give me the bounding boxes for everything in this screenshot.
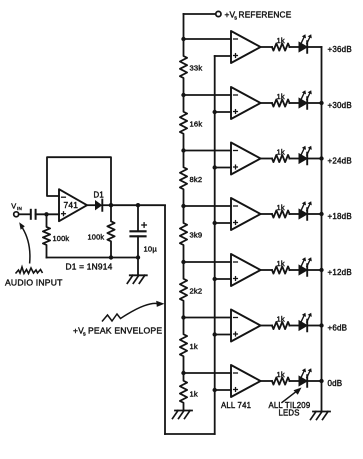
op-amp 741 comparator 2 [231,87,261,119]
ground LED rail [311,412,331,420]
svg-text:1k: 1k [277,147,285,156]
svg-text:741: 741 [64,200,79,210]
wire minus input row 4 [184,205,232,207]
svg-text:1k: 1k [277,203,285,212]
label +Vs REFERENCE [225,10,292,22]
arrow audio input [19,222,30,263]
label 3k9 [190,231,203,240]
wire Vin to capacitor [19,213,31,215]
junction bus row 2 [213,110,217,114]
svg-text:+12dB: +12dB [328,268,352,277]
wire LED to rail row 5 [309,269,322,271]
junction rail row 2 [319,101,323,105]
wire top reference rail [184,13,216,15]
op-amp 741 comparator 5 [231,254,261,286]
wire minus input row 2 [184,94,232,96]
wire output row 3 [261,158,273,160]
wire to ground peak detector [137,258,139,276]
wire to LED row 3 [290,158,300,160]
wire plus input row 6 [215,334,231,336]
junction rail row 6 [319,323,323,327]
wire plus input row 3 [215,167,231,169]
junction rail row 4 [319,212,323,216]
junction 100k bottom [109,255,113,259]
wire LED to rail row 6 [309,325,322,327]
label 1k row 2 [277,92,285,101]
LED TIL209 row 4 [299,201,312,220]
wire output row 5 [261,269,273,271]
capacitor input coupling [31,210,36,219]
svg-text:V: V [11,202,16,211]
label 1k row 3 [277,147,285,156]
label 10u [144,245,158,254]
wire to LED row 7 [290,380,300,382]
label 1k row 7 [277,370,285,379]
label 16k [190,119,203,128]
junction rail row 7 [319,379,323,383]
junction bus row 6 [213,332,217,336]
junction ladder node 1 [181,37,185,41]
junction ladder node 4 [181,204,185,208]
wire LED to rail row 3 [309,158,322,160]
wire peak detector bottom rail [47,257,139,259]
label AUDIO INPUT [5,278,63,288]
terminal +Vs reference (open circle) [216,11,221,16]
wire signal bus vertical [214,56,216,434]
resistor 1k row 4 [272,210,290,217]
wire plus input row 2 [215,111,231,113]
svg-text:100k: 100k [53,234,70,243]
label ALL TIL209 [269,401,311,410]
label D1 [94,191,104,200]
wire minus input row 3 [184,150,232,152]
svg-text:REFERENCE: REFERENCE [239,10,292,20]
wire to LED row 1 [290,46,300,48]
resistor 1k row 7 [272,377,290,384]
wire minus input row 6 [184,317,232,319]
junction bus row 7 [213,388,217,392]
wire output row 1 [261,46,273,48]
svg-text:1k: 1k [277,370,285,379]
LED TIL209 row 6 [299,313,312,332]
op-amp 741 comparator 6 [231,310,261,342]
diode D1 1N914 [87,200,111,211]
capacitor 10u electrolytic [131,205,147,257]
svg-text:PEAK ENVELOPE: PEAK ENVELOPE [88,326,162,336]
wire capacitor to plus input [36,213,59,215]
junction bus row 4 [213,221,217,225]
label +12dB [328,268,352,277]
ground ladder bottom [173,411,193,419]
junction ladder node 5 [181,260,185,264]
label ALL 741 [221,401,251,410]
svg-text:0dB: 0dB [328,379,343,388]
junction ladder node 3 [181,148,185,152]
LED TIL209 row 3 [299,146,312,165]
svg-text:D1: D1 [94,191,104,200]
junction ladder node 2 [181,93,185,97]
label +24dB [328,157,352,166]
junction ladder node 6 [181,315,185,319]
junction ladder node 7 [181,371,185,375]
svg-text:33k: 33k [190,64,203,73]
wire to LED row 4 [290,213,300,215]
wire peak envelope vertical [164,206,166,435]
svg-text:LEDS: LEDS [279,409,300,418]
wire minus input row 1 [184,38,232,40]
LED TIL209 row 7 [299,368,312,387]
wire feedback [47,157,111,205]
label +Vs PEAK ENVELOPE [73,326,162,338]
label 1k row 1 [277,36,285,45]
wire LED rail vertical [321,47,323,412]
terminal Vin (open circle) [14,212,19,217]
wire minus input row 7 [184,372,232,374]
svg-text:1k: 1k [277,92,285,101]
junction capacitor top [136,203,140,207]
wire plus input row 1 [215,55,231,57]
svg-text:AUDIO INPUT: AUDIO INPUT [5,278,63,288]
scribble audio waveform [16,267,43,274]
label 1k row 6 [277,314,285,323]
resistor 1k row 3 [272,155,290,162]
svg-text:+24dB: +24dB [328,157,352,166]
resistor 1k row 2 [272,99,290,106]
wire to LED row 6 [290,325,300,327]
svg-text:1k: 1k [277,314,285,323]
wire signal bus bottom horizontal [165,433,215,435]
svg-text:2k2: 2k2 [190,286,203,295]
LED TIL209 row 1 [299,34,312,53]
svg-text:+30dB: +30dB [328,101,352,110]
label +30dB [328,101,352,110]
junction rail row 5 [319,268,323,272]
label +18dB [328,212,352,221]
wire LED to rail row 4 [309,213,322,215]
op-amp 741 comparator 1 [231,31,261,63]
junction 100k top [44,212,48,216]
svg-text:10µ: 10µ [144,245,158,254]
wire to LED row 2 [290,102,300,104]
wire plus input row 4 [215,222,231,224]
svg-text:100k: 100k [88,233,105,242]
wire output row 6 [261,325,273,327]
svg-text:1k: 1k [277,36,285,45]
junction rail row 3 [319,156,323,160]
wire LED to rail row 1 [309,46,322,48]
wire output row 2 [261,102,273,104]
svg-text:3k9: 3k9 [190,231,203,240]
label 1k row 5 [277,259,285,268]
wire ladder rail top segment [183,14,185,39]
svg-text:s: s [83,331,86,337]
junction bus row 5 [213,277,217,281]
label 1k row 4 [277,203,285,212]
label Vin [11,202,22,212]
label 1k bottom [190,390,198,399]
junction bus row 3 [213,165,217,169]
label 33k [190,64,203,73]
label 1k [190,342,198,351]
junction diode output node [109,203,113,207]
op-amp 741 peak detector [59,189,87,221]
wire LED to rail row 2 [309,102,322,104]
wire output node to envelope [111,204,165,206]
svg-text:1k: 1k [190,342,198,351]
svg-text:8k2: 8k2 [190,175,203,184]
resistor 3k9 ladder [180,206,187,262]
svg-text:1k: 1k [190,390,198,399]
resistor 1k row 6 [272,322,290,329]
resistor 16k ladder [180,95,187,151]
op-amp 741 comparator 7 [231,365,261,397]
label +36dB [328,45,352,54]
junction capacitor bottom [136,255,140,259]
wire minus input row 5 [184,261,232,263]
wire plus input row 7 [215,389,231,391]
arrow to LEDs [282,388,302,403]
svg-text:+18dB: +18dB [328,212,352,221]
resistor 1k row 5 [272,266,290,273]
resistor 100k input [43,214,50,257]
wire output row 7 [261,380,273,382]
svg-text:ALL 741: ALL 741 [221,401,251,410]
arrow peak envelope [102,301,165,322]
wire plus input row 5 [215,278,231,280]
wire LED to rail row 7 [309,380,322,382]
resistor 1k row 1 [272,43,290,50]
LED TIL209 row 5 [299,257,312,276]
op-amp 741 comparator 4 [231,198,261,230]
label 2k2 [190,286,203,295]
resistor 100k output [107,205,114,257]
label LEDS [279,409,300,418]
op-amp 741 comparator 3 [231,143,261,175]
svg-text:16k: 16k [190,119,203,128]
ground peak detector [127,275,147,283]
label 0dB [328,379,343,388]
resistor 33k ladder [180,39,187,95]
label 100k output [88,233,105,242]
svg-text:+6dB: +6dB [328,324,348,333]
LED TIL209 row 2 [299,90,312,109]
resistor 1k ladder [180,318,187,374]
svg-text:IN: IN [17,206,22,211]
label +6dB [328,324,348,333]
svg-text:+36dB: +36dB [328,45,352,54]
svg-text:D1 = 1N914: D1 = 1N914 [66,262,113,272]
svg-text:1k: 1k [277,259,285,268]
label 100k input [53,234,70,243]
svg-text:s: s [234,16,237,22]
label D1 = 1N914 [66,262,113,272]
wire to LED row 5 [290,269,300,271]
label 8k2 [190,175,203,184]
wire output row 4 [261,213,273,215]
resistor 1k ladder bottom [180,373,187,411]
resistor 2k2 ladder [180,262,187,318]
resistor 8k2 ladder [180,151,187,207]
